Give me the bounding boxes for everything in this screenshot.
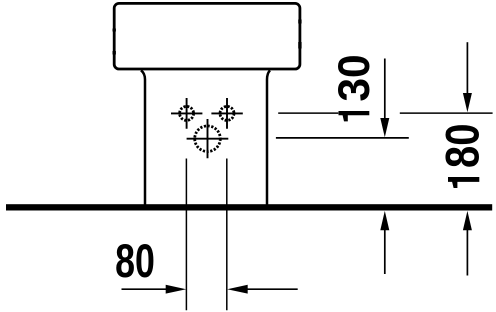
mounting hole left crosshair (171, 98, 202, 129)
mounting hole right crosshair (211, 98, 242, 129)
dim 180 label digit 1 (custom glyph) (448, 177, 479, 188)
80-dim left arrowhead pointing right (166, 285, 187, 294)
floor up-arrow at x=385 arrowhead (380, 211, 389, 230)
80-dim extension line left (x=186) (185, 159, 187, 311)
floor up-arrow at x=385 shaft (384, 229, 386, 274)
dim 180 leader line down (466, 42, 468, 95)
tick nub right edge lower (298, 42, 301, 49)
tick nub left edge lower (112, 51, 115, 55)
extension line at hole level 180 (y=113) left segment (278, 112, 338, 114)
tick nub right edge upper (298, 20, 301, 24)
drain hole (large) circle (195, 126, 221, 152)
tank outline (top rounded box) (114, 3, 300, 69)
floor up-arrow at x=467 arrowhead (463, 211, 472, 230)
dim 130 leader line down (384, 59, 386, 121)
80-dim extension line right (x=227) (226, 159, 228, 311)
dim 180 arrowhead down (463, 93, 472, 112)
dim 130 arrowhead down (380, 118, 389, 137)
extension line at drain level 130 (y=138) (276, 137, 409, 139)
dim 130 label digit 1 (custom glyph) (339, 111, 370, 121)
80-dim left arrow shaft (122, 288, 168, 290)
80-dim right arrow shaft (246, 288, 297, 290)
mounting hole right (small) circle (220, 106, 234, 120)
svg-text:80: 80 (115, 234, 155, 287)
floor up-arrow at x=467 shaft (466, 229, 468, 276)
extension line at hole level 180 (y=113) right segment (400, 112, 493, 114)
drain hole crosshair (187, 119, 229, 158)
mounting hole left (small) circle (180, 106, 194, 120)
tick nub left edge upper (112, 29, 115, 32)
80-dim right arrowhead pointing left (227, 285, 248, 294)
pedestal left edge (141, 70, 145, 204)
floor line (thick) (6, 204, 492, 210)
pedestal right edge (267, 70, 270, 204)
